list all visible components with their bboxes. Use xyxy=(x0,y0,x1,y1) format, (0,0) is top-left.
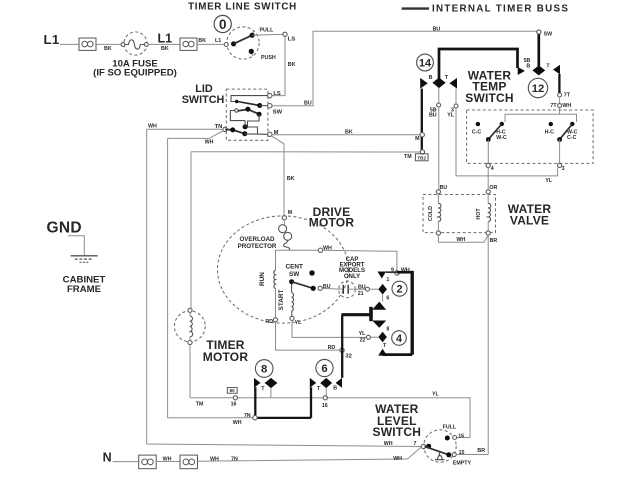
svg-text:WH: WH xyxy=(456,237,465,243)
cent switch arm tip dot xyxy=(311,286,316,291)
wire WH xyxy=(156,461,180,463)
pin 21 BU xyxy=(365,287,369,291)
svg-text:YL: YL xyxy=(295,320,303,326)
svg-text:L1: L1 xyxy=(158,32,173,46)
water valve dashed enclosure xyxy=(423,195,496,233)
svg-text:60: 60 xyxy=(230,388,236,393)
svg-text:7T: 7T xyxy=(550,103,557,109)
internal buss 14 to 12 xyxy=(439,49,518,80)
wire BR down right side xyxy=(487,235,489,454)
svg-text:8: 8 xyxy=(261,364,267,376)
switch arm lid pole2 xyxy=(238,109,259,114)
wire lid internal left drop xyxy=(230,111,245,121)
svg-text:M: M xyxy=(415,136,420,142)
svg-text:1: 1 xyxy=(386,277,389,283)
node SW lid xyxy=(268,104,272,108)
contact dot temp left lower xyxy=(486,137,491,142)
contact dot H-C/W-C pivot xyxy=(500,122,504,126)
wire connector to switch xyxy=(197,43,224,45)
connector P4 xyxy=(180,455,198,469)
wire WH 7N to water level switch xyxy=(198,447,422,462)
timer contact 2 group xyxy=(369,272,407,302)
contact 8 left triangle xyxy=(254,378,261,388)
svg-text:BU: BU xyxy=(358,284,366,290)
svg-text:8: 8 xyxy=(386,326,389,332)
terminal block label TB2 xyxy=(415,154,428,161)
contact 4 diamond xyxy=(378,332,387,343)
coil HOT solenoid xyxy=(476,194,491,235)
contact dot lid C xyxy=(257,112,262,117)
wire switch to LS node xyxy=(252,33,285,36)
contact 4 bottom triangle xyxy=(378,349,387,356)
circled 2 xyxy=(392,281,407,296)
circled 8 xyxy=(255,360,273,378)
pin 7T lower xyxy=(558,104,562,108)
svg-text:4: 4 xyxy=(396,333,402,345)
svg-text:YL: YL xyxy=(359,331,367,337)
internal buss 6T down to 7N line xyxy=(310,387,312,418)
switch arm to empty xyxy=(425,446,449,454)
contact dot lid D xyxy=(243,124,248,129)
svg-text:N: N xyxy=(103,450,112,464)
svg-text:(IF SO EQUIPPED): (IF SO EQUIPPED) xyxy=(93,67,177,78)
contact 6 left triangle xyxy=(310,378,316,388)
legend internal timer buss sample line xyxy=(402,7,429,9)
svg-text:GND: GND xyxy=(47,219,82,236)
svg-text:INTERNAL TIMER BUSS: INTERNAL TIMER BUSS xyxy=(432,3,569,14)
pin 3 xyxy=(454,104,458,108)
pin 7T upper xyxy=(558,93,562,97)
switch S1 timer line switch xyxy=(214,15,259,59)
wire diamond 6 to bus xyxy=(325,388,327,398)
junction dot lid a xyxy=(235,100,238,103)
svg-text:VALVE: VALVE xyxy=(510,214,549,228)
drive motor dashed circle xyxy=(218,216,349,323)
wire BK from lid M to timer M node xyxy=(272,134,420,136)
stub dot D xyxy=(244,121,246,127)
wire YL motor to pin 22 xyxy=(292,321,366,338)
svg-text:2: 2 xyxy=(396,284,402,296)
wire dot A to SW xyxy=(260,105,268,107)
svg-text:WH: WH xyxy=(393,456,402,462)
svg-text:SWITCH: SWITCH xyxy=(373,425,422,439)
timer contact 8 group xyxy=(254,360,277,398)
wire dot F to M xyxy=(245,133,268,135)
pin 3 temp xyxy=(558,163,562,167)
wire OR pin4 down to water valve xyxy=(487,168,489,190)
motor inner frame wire xyxy=(276,250,342,350)
svg-text:6: 6 xyxy=(321,363,327,375)
svg-text:BU: BU xyxy=(433,26,441,32)
circled 14 xyxy=(417,54,434,71)
svg-text:OVERLOAD: OVERLOAD xyxy=(239,236,275,243)
timer contact 12 group xyxy=(518,34,560,98)
svg-text:7T: 7T xyxy=(564,92,571,98)
node 16 right xyxy=(323,396,327,400)
wire N line xyxy=(113,461,139,463)
pin 5B xyxy=(437,103,441,107)
node RD motor xyxy=(273,318,277,322)
wire node9 to triangle xyxy=(386,271,397,273)
node 32 xyxy=(340,348,344,352)
svg-text:7N: 7N xyxy=(244,413,251,419)
svg-text:BU: BU xyxy=(304,100,312,106)
svg-text:M: M xyxy=(288,210,293,216)
terminal 16 FULL xyxy=(453,436,457,440)
svg-text:PULL: PULL xyxy=(260,28,275,34)
svg-text:RUN: RUN xyxy=(259,272,266,286)
contact 14 left triangle B xyxy=(420,78,428,89)
wire WH from TN to left rail xyxy=(147,128,223,130)
svg-text:RD: RD xyxy=(328,345,336,351)
contact dot EMPTY xyxy=(446,452,451,457)
svg-text:YL: YL xyxy=(447,113,455,119)
contact dot temp right lower xyxy=(557,137,562,142)
internal buss 14B down to M and TM xyxy=(421,89,423,151)
pivot dot xyxy=(426,444,431,449)
node WH motor xyxy=(318,248,322,252)
svg-text:LS: LS xyxy=(288,36,296,42)
svg-text:12: 12 xyxy=(532,83,545,95)
contact dot W-C/C-C pivot xyxy=(570,122,574,126)
cent switch open contact dot xyxy=(309,270,314,275)
wire WH left rail down to water level switch xyxy=(147,129,422,446)
wire timer motor down to YL bus xyxy=(189,345,191,398)
node TM timer xyxy=(420,150,424,154)
capacitor C1 (export models) xyxy=(322,281,365,298)
svg-text:SWITCH: SWITCH xyxy=(182,94,225,106)
node 9 xyxy=(395,271,399,275)
svg-text:32: 32 xyxy=(345,354,352,360)
wire BR empty to right rail xyxy=(456,454,488,456)
wire TM bus xyxy=(191,151,420,153)
contact 6 right triangle xyxy=(336,378,342,388)
contact dot lid A xyxy=(257,103,262,108)
node BU motor xyxy=(318,286,322,290)
wire BK down to lid switch xyxy=(272,36,285,95)
water level switch S4 xyxy=(421,430,456,462)
svg-text:BR: BR xyxy=(477,448,485,454)
contact 2 diamond xyxy=(378,284,387,295)
wire WH second rail down to 7N node xyxy=(168,138,253,417)
contact dot H-C free xyxy=(549,122,553,126)
pivot circle lid pole2 xyxy=(235,109,238,112)
svg-text:C-C: C-C xyxy=(472,130,482,136)
wire diamond 8 to bus xyxy=(270,388,272,398)
wire YL bus bottom xyxy=(190,398,470,438)
svg-text:SW: SW xyxy=(273,109,283,115)
contact dot C-C xyxy=(476,122,480,126)
svg-text:TM: TM xyxy=(196,402,204,408)
internal buss SW to 12 diamond xyxy=(537,34,540,66)
svg-text:BR: BR xyxy=(490,238,498,244)
wire BK connector to fuse xyxy=(96,43,121,45)
terminal box 60 xyxy=(227,388,237,394)
timer contact 4 group xyxy=(359,331,407,356)
svg-text:OR: OR xyxy=(489,185,497,191)
svg-text:ONLY: ONLY xyxy=(344,273,360,280)
svg-text:SW: SW xyxy=(544,32,553,38)
svg-text:YL: YL xyxy=(545,178,553,184)
svg-text:WH: WH xyxy=(148,124,157,130)
svg-text:WH: WH xyxy=(163,456,172,462)
svg-text:FULL: FULL xyxy=(443,425,457,431)
wire temp switch top feed xyxy=(505,108,577,122)
pin OR water valve xyxy=(486,190,490,194)
wire 3 YL from 14 right triangle to temp switch pin 3 xyxy=(456,89,558,176)
node 16 left xyxy=(233,396,237,400)
svg-text:H-C: H-C xyxy=(545,130,555,136)
svg-text:BK: BK xyxy=(287,176,295,182)
connector P1 xyxy=(79,38,96,50)
contact 14 diamond xyxy=(432,78,445,89)
svg-text:BU: BU xyxy=(429,113,437,119)
svg-text:21: 21 xyxy=(358,291,364,297)
contact 2 top triangle xyxy=(378,272,387,279)
internal buss right bar frame xyxy=(397,271,412,274)
switch arm temp left xyxy=(488,124,502,139)
wire L1 to connector xyxy=(60,43,79,45)
node SW top right xyxy=(537,30,541,34)
contact 12 left triangle xyxy=(518,67,525,75)
switch arm temp right xyxy=(560,124,573,139)
coil COLD solenoid xyxy=(428,194,441,235)
connector P2 xyxy=(180,38,197,50)
internal buss 8T down to 7N line xyxy=(254,387,256,418)
fuse F1 10A (dashed circle with element) xyxy=(121,32,148,55)
wire WH motor to node 9 xyxy=(323,250,397,270)
switch arm lid pole1 xyxy=(238,102,259,106)
svg-text:3: 3 xyxy=(562,166,565,172)
wire pin21 to diamond xyxy=(369,288,378,290)
water temp switch dashed enclosure xyxy=(467,110,593,163)
winding RUN xyxy=(274,270,276,288)
svg-text:BK: BK xyxy=(288,62,296,68)
svg-text:W-C: W-C xyxy=(496,135,507,141)
svg-text:EMPTY: EMPTY xyxy=(453,461,472,467)
contact dot lid B xyxy=(245,107,250,112)
cent switch pivot dot xyxy=(289,279,294,284)
svg-text:16: 16 xyxy=(322,403,328,409)
node M drive motor xyxy=(282,216,286,220)
circled 4 xyxy=(392,331,407,346)
node YL motor xyxy=(290,316,294,320)
circled 6 xyxy=(316,359,333,376)
node TN lid xyxy=(223,127,227,131)
svg-text:YL: YL xyxy=(432,392,440,398)
internal buss 7N link xyxy=(254,417,311,419)
wire fuse to connector P2 xyxy=(148,43,180,45)
wire BU from SW up to top bus xyxy=(272,31,537,105)
terminal 7 xyxy=(421,444,425,448)
svg-text:BK: BK xyxy=(198,38,206,44)
svg-text:TIMER LINE SWITCH: TIMER LINE SWITCH xyxy=(188,1,297,12)
svg-text:SW: SW xyxy=(289,271,300,278)
svg-text:7N: 7N xyxy=(231,456,238,462)
svg-text:0: 0 xyxy=(219,17,227,32)
connector P3 xyxy=(139,455,157,469)
svg-text:CENT: CENT xyxy=(285,263,302,270)
svg-text:WH: WH xyxy=(384,441,393,447)
svg-text:WH: WH xyxy=(233,420,242,426)
wire lid LS internal xyxy=(231,96,268,102)
svg-text:C-C: C-C xyxy=(567,135,577,141)
svg-text:14: 14 xyxy=(419,58,432,70)
svg-text:B: B xyxy=(429,75,433,81)
svg-text:PUSH: PUSH xyxy=(261,55,276,61)
svg-text:RD: RD xyxy=(265,319,273,325)
switch arm lid pole3 from TN xyxy=(225,129,245,133)
svg-text:MOTOR: MOTOR xyxy=(309,215,355,229)
ground GND symbol xyxy=(47,219,98,262)
svg-text:WH: WH xyxy=(562,103,571,109)
svg-text:START: START xyxy=(278,289,285,310)
svg-text:FRAME: FRAME xyxy=(67,284,102,295)
svg-text:B: B xyxy=(333,385,337,391)
svg-text:SWITCH: SWITCH xyxy=(465,91,514,105)
pin 4 xyxy=(486,163,490,167)
svg-text:7: 7 xyxy=(413,441,416,447)
contact dot FULL xyxy=(445,436,450,441)
svg-text:WH: WH xyxy=(210,456,219,462)
internal buss staircase 2-4 xyxy=(382,295,384,302)
wire WH valve bottom xyxy=(438,235,488,242)
svg-text:16: 16 xyxy=(458,433,464,439)
svg-text:16: 16 xyxy=(231,402,237,408)
node LS lid xyxy=(268,93,272,97)
circled 12 xyxy=(528,78,547,97)
pressure dome xyxy=(435,451,445,460)
svg-text:BK: BK xyxy=(161,46,169,52)
contact 14 right triangle T xyxy=(450,78,458,89)
timer contact 6 group xyxy=(310,359,342,397)
wire WH diagonal from TN xyxy=(168,131,224,139)
svg-text:HOT: HOT xyxy=(476,208,482,220)
lid switch dashed enclosure xyxy=(226,89,268,140)
wire M diagonal down to drive motor xyxy=(271,136,284,216)
pin BU water valve xyxy=(436,190,440,194)
svg-text:4: 4 xyxy=(491,166,494,172)
svg-text:BK: BK xyxy=(104,46,112,52)
svg-text:TB2: TB2 xyxy=(417,155,426,160)
svg-text:LS: LS xyxy=(273,91,281,97)
contact 12 right triangle xyxy=(553,65,560,75)
svg-text:L1: L1 xyxy=(44,32,60,47)
svg-text:PROTECTOR: PROTECTOR xyxy=(238,243,277,250)
svg-text:15: 15 xyxy=(459,450,465,456)
wire 7T to temp switch xyxy=(559,97,561,104)
svg-text:6: 6 xyxy=(386,296,389,302)
node LS top xyxy=(283,32,287,36)
svg-text:B: B xyxy=(526,64,530,70)
internal buss 12T down xyxy=(558,74,560,93)
wire pin 22 to diamond xyxy=(370,336,378,338)
terminal 15 EMPTY xyxy=(452,453,456,457)
pin 22 YL xyxy=(366,335,370,339)
contact dot lid E xyxy=(230,127,235,132)
svg-text:22: 22 xyxy=(360,337,366,343)
node 7N xyxy=(253,416,257,420)
contact 8 diamond xyxy=(265,378,278,388)
svg-text:BK: BK xyxy=(345,130,353,136)
contact dot lid F xyxy=(242,131,247,136)
svg-text:COLD: COLD xyxy=(428,206,434,221)
timer motor TM1 xyxy=(174,308,205,344)
overload protector OL1 xyxy=(279,220,292,250)
svg-text:MOTOR: MOTOR xyxy=(203,350,249,364)
winding START xyxy=(292,284,294,316)
wire to pin 3 xyxy=(559,140,561,164)
contact 12 diamond xyxy=(532,65,545,75)
svg-text:WH: WH xyxy=(205,140,214,146)
svg-text:BU: BU xyxy=(440,185,448,191)
cent switch arm xyxy=(292,282,313,289)
wire to pin 4 xyxy=(487,140,489,164)
svg-text:L1: L1 xyxy=(215,38,221,44)
wire 5B BU from 14 diamond down to water valve xyxy=(438,88,440,189)
svg-text:TM: TM xyxy=(404,154,412,160)
timer contact 14 group xyxy=(417,49,518,89)
node M lid xyxy=(268,132,272,136)
node M timer xyxy=(420,133,424,137)
wire lid internal jog xyxy=(248,114,260,134)
contact 6 diamond xyxy=(320,378,332,388)
wire left rail to timer motor xyxy=(190,152,192,309)
